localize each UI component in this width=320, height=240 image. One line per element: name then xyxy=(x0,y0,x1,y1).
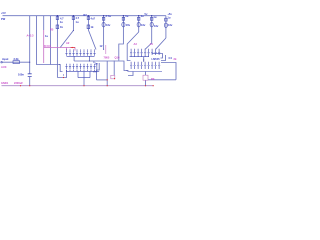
svg-text:R5: R5 xyxy=(50,28,54,32)
svg-text:16v: 16v xyxy=(141,23,146,27)
wire hook x99.2 xyxy=(96,63,99,70)
svg-text:1u: 1u xyxy=(153,15,156,19)
wire left hook under U2 xyxy=(128,72,133,76)
input terminal xyxy=(1,61,3,63)
svg-text:C 1u: C 1u xyxy=(106,14,112,18)
wire hook x96.8 xyxy=(93,63,97,72)
capacitor box on x165.9 xyxy=(165,18,167,21)
svg-text:1u: 1u xyxy=(125,14,128,18)
svg-text:A3: A3 xyxy=(134,42,138,46)
capacitor C 100n plates xyxy=(28,74,32,77)
U2 row1 rail xyxy=(130,56,150,58)
wire hook x96.5 down xyxy=(96,70,98,80)
capacitor box on x138.7 xyxy=(138,17,140,20)
wire diagonal from x138.7 to U2 left edge xyxy=(127,32,139,61)
capacitor box on x103.6 xyxy=(102,17,104,20)
svg-text:R7: R7 xyxy=(83,13,87,17)
wire x165.5 hook to U2 right xyxy=(161,55,166,61)
svg-text:16v: 16v xyxy=(168,23,173,27)
U2 row2 rail xyxy=(127,71,162,73)
wire U2 bottom resistor feed xyxy=(145,72,147,86)
wire vertical drop x43.7 xyxy=(43,16,45,30)
wire diagonal from x88.4 to U1 pin xyxy=(88,30,96,50)
svg-text:16v: 16v xyxy=(106,23,111,27)
svg-text:1u: 1u xyxy=(76,20,79,24)
U2 display row1 glyphs xyxy=(127,50,162,72)
wire diagonal from x73.4 to magenta net xyxy=(60,31,73,48)
wire diagonal from x165.9 to U2 pin xyxy=(156,38,166,49)
wire right outer loop x176 xyxy=(148,63,176,80)
svg-text:2.2k: 2.2k xyxy=(14,57,20,61)
wire U1 row1 collector to bus xyxy=(73,56,75,61)
U2 row2 glyphs xyxy=(130,63,132,69)
net wire magenta ALT xyxy=(44,30,75,63)
U1 display row1 glyphs xyxy=(65,51,99,86)
wire vertical drop x73.4 xyxy=(72,16,74,31)
wire vertical drop x123.4 jog to bus xyxy=(119,16,124,61)
U1 row2 rail xyxy=(66,70,99,72)
resistor R1 input xyxy=(13,61,20,64)
svg-text:16v: 16v xyxy=(154,24,159,28)
electrolytic C oval x138.7 xyxy=(137,22,140,27)
U1 bottom pins to collector xyxy=(78,71,90,77)
wire U2 right hook inner xyxy=(161,54,163,59)
svg-text:R9: R9 xyxy=(151,77,155,81)
electrolytic C oval x103.6 xyxy=(102,22,105,27)
wire vertical drop x50.5 xyxy=(50,16,52,65)
svg-text:C4: C4 xyxy=(169,56,173,60)
svg-text:1u: 1u xyxy=(45,34,48,38)
wire vertical drop x57.4 xyxy=(56,16,58,78)
wire center drop x114.2 xyxy=(113,61,115,76)
wire top +5V rail xyxy=(3,15,166,17)
svg-text:100n: 100n xyxy=(18,73,24,77)
junction dots red xyxy=(20,47,154,86)
svg-text:A4: A4 xyxy=(150,42,154,46)
wire mid bus between blocks xyxy=(74,61,128,71)
electrolytic C oval x123.4 xyxy=(122,22,125,27)
resistor box bottom right magenta xyxy=(143,75,148,80)
svg-text:A=3.3: A=3.3 xyxy=(27,34,35,38)
svg-text:4.7: 4.7 xyxy=(76,16,80,20)
U2 row1 top link xyxy=(152,53,160,55)
wire vertical drop x88.4 xyxy=(87,16,89,30)
wire vertical drop x138.7 xyxy=(138,16,140,32)
svg-text:7805: 7805 xyxy=(104,56,110,60)
ground rail bottom xyxy=(2,85,154,87)
net wire stub x66.5 xyxy=(66,48,68,51)
U1 row1 rail xyxy=(67,55,95,57)
svg-text:LM545: LM545 xyxy=(152,57,161,61)
wire U1 row1 right collector to bus xyxy=(89,56,91,61)
capacitor box on x123.4 xyxy=(122,17,124,20)
wire vertical drop x165.9 xyxy=(165,16,167,38)
svg-text:1u: 1u xyxy=(60,20,63,24)
svg-text:AUX: AUX xyxy=(1,65,7,69)
net wire stub x105.8 xyxy=(105,45,107,54)
U1 row2 glyphs xyxy=(65,64,67,70)
svg-text:D=0.5: D=0.5 xyxy=(44,44,52,48)
wire vertical drop x36.5 xyxy=(37,16,60,65)
wire vertical drop x103.6 xyxy=(103,16,105,43)
U1 bottom drop to ground xyxy=(83,78,85,86)
resistor on x73.4 xyxy=(72,17,74,20)
wire center drop x107.2 to ground rail xyxy=(106,61,108,86)
svg-text:input: input xyxy=(2,57,8,61)
svg-text:4.7: 4.7 xyxy=(60,17,64,21)
wire vertical drop x29.7 xyxy=(29,16,31,63)
svg-text:2200uF: 2200uF xyxy=(14,81,23,85)
red net segment xyxy=(71,47,76,49)
resistor on x88.4 top xyxy=(87,17,89,20)
component box center magenta xyxy=(111,75,115,79)
svg-text:+5V: +5V xyxy=(1,11,6,15)
svg-text:+5v: +5v xyxy=(167,12,172,16)
junction dots blue xyxy=(29,15,159,76)
capacitor box on x151.7 xyxy=(151,17,153,20)
wire x103.6 to U1 pin xyxy=(103,43,105,49)
svg-text:4u7: 4u7 xyxy=(91,17,96,21)
svg-text:GND1: GND1 xyxy=(1,81,9,85)
svg-text:A2: A2 xyxy=(66,41,70,45)
wire bottom collect y77.5 xyxy=(57,70,66,77)
wire x60.2 hook down xyxy=(60,65,62,72)
resistor R2 on x57.4 xyxy=(56,25,59,29)
svg-text:1u: 1u xyxy=(95,62,98,66)
wire U2 mid drop x143.7 xyxy=(143,57,145,62)
resistor on x88.4 lower xyxy=(87,25,90,29)
electrolytic C oval x151.7 xyxy=(150,22,153,27)
svg-text:Q10: Q10 xyxy=(115,56,120,60)
svg-text:1u: 1u xyxy=(167,16,170,20)
resistor R on x57.4 top xyxy=(56,17,58,20)
electrolytic C oval x165.9 xyxy=(164,23,167,28)
wire vertical drop x151.7 xyxy=(145,16,152,50)
wire collect y79.9 xyxy=(97,79,108,81)
wire input line left xyxy=(2,61,30,63)
svg-text:16v: 16v xyxy=(126,23,131,27)
wire x29.7 down to C cap and ground xyxy=(29,62,31,85)
wire bus drop x93.9 xyxy=(93,61,95,63)
svg-text:PW: PW xyxy=(1,17,6,21)
